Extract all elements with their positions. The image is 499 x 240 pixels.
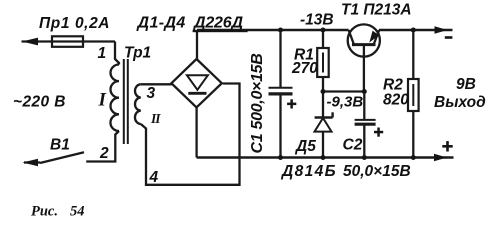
svg-text:50,0×15В: 50,0×15В: [343, 163, 411, 180]
svg-text:9В: 9В: [456, 76, 476, 93]
svg-text:Д226Д: Д226Д: [192, 15, 243, 32]
svg-text:270: 270: [291, 60, 318, 77]
svg-text:Выход: Выход: [434, 94, 486, 111]
svg-text:С1 500,0×15В: С1 500,0×15В: [249, 53, 266, 153]
svg-text:Т1 П213А: Т1 П213А: [341, 2, 412, 19]
svg-text:2: 2: [99, 145, 109, 162]
svg-text:I: I: [98, 90, 107, 111]
svg-text:820: 820: [383, 92, 409, 109]
svg-text:Пр1 0,2А: Пр1 0,2А: [39, 15, 110, 32]
svg-text:II: II: [150, 111, 161, 126]
svg-text:С2: С2: [343, 137, 363, 154]
svg-text:Тр1: Тр1: [124, 45, 151, 62]
svg-text:1: 1: [98, 45, 107, 62]
svg-text:В1: В1: [50, 137, 70, 154]
svg-text:Д5: Д5: [294, 138, 316, 155]
svg-text:-9,3В: -9,3В: [327, 94, 364, 111]
svg-text:~220 В: ~220 В: [13, 94, 66, 111]
svg-text:-13В: -13В: [300, 12, 334, 29]
svg-text:Д814Б: Д814Б: [280, 163, 337, 180]
svg-text:3: 3: [147, 85, 156, 102]
svg-text:Рис.: Рис.: [31, 204, 58, 220]
svg-text:4: 4: [149, 169, 159, 186]
svg-text:54: 54: [70, 204, 85, 220]
svg-text:Д1-Д4: Д1-Д4: [136, 15, 186, 32]
